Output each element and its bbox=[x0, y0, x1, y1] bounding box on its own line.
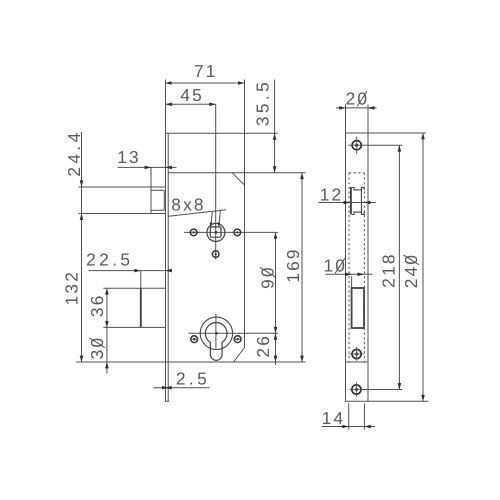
screw hole right of cylinder bbox=[234, 336, 241, 343]
latch bolt (front view) bbox=[150, 167, 152, 213]
dim 45 (backset) bbox=[166, 103, 216, 105]
dim 2.5 (faceplate thickness) bbox=[153, 387, 209, 389]
dim 24.4 / dim 132 shared dimension line bbox=[81, 132, 83, 362]
slash of zero in 240 (rotated) bbox=[403, 255, 419, 265]
screw hole right of follower bbox=[234, 229, 241, 236]
wire ext line bottom hole to dim 218 bbox=[361, 389, 402, 391]
follower square hole 8x8 bbox=[210, 227, 221, 237]
follower hub circle bbox=[207, 223, 225, 241]
svg-text:14: 14 bbox=[322, 408, 346, 428]
dim 14 (case offset) bbox=[348, 403, 350, 429]
dim 218 (screw hole spacing) bbox=[398, 145, 400, 389]
wire case bottom line across plate bbox=[346, 361, 367, 363]
wire case-top-edge + ext for 35.5/169 bbox=[168, 172, 305, 174]
top screw hole (side view) bbox=[352, 141, 361, 150]
wire case-bottom-edge + ext for 132/30/169 bbox=[76, 361, 306, 363]
dim 240 (plate height) bbox=[422, 133, 424, 401]
bottom screw hole (side view) bbox=[352, 385, 361, 394]
svg-text:10: 10 bbox=[323, 256, 347, 276]
wire follower horizontal centerline bbox=[184, 231, 278, 233]
svg-text:132: 132 bbox=[62, 270, 82, 305]
dim 13 (latch protrusion) bbox=[118, 166, 177, 168]
svg-text:22.5: 22.5 bbox=[86, 250, 133, 270]
screw hole left of cylinder bbox=[191, 336, 198, 343]
cylinder outer circle bbox=[200, 317, 232, 349]
svg-text:26: 26 bbox=[253, 334, 273, 358]
svg-text:8x8: 8x8 bbox=[171, 195, 205, 215]
wire cylinder vertical centerline bbox=[215, 314, 217, 349]
svg-text:13: 13 bbox=[117, 147, 141, 167]
svg-text:24.4: 24.4 bbox=[64, 129, 84, 176]
dim 10 (deadbolt slot width) bbox=[325, 273, 372, 275]
wire vertical centerline (backset 45) bbox=[215, 104, 217, 259]
slash of zero in 20 bbox=[357, 91, 367, 106]
svg-text:36: 36 bbox=[87, 293, 107, 317]
dim 35.5 (plate top to case top) bbox=[274, 80, 276, 173]
hidden case edges behind plate (dashed) bbox=[348, 173, 350, 362]
slash of zero in 30 (rotated) bbox=[89, 338, 105, 348]
dim 20 (plate width) bbox=[336, 107, 377, 109]
svg-text:45: 45 bbox=[180, 85, 204, 105]
middle screw hole (side view) bbox=[352, 349, 361, 358]
slash of zero in 10 bbox=[335, 258, 345, 273]
wire cylinder horizontal centerline + ext for 90/26 bbox=[189, 332, 279, 334]
svg-text:2.5: 2.5 bbox=[176, 368, 210, 388]
dim 36 / dim 30 shared dimension line bbox=[106, 288, 108, 373]
screw hole below follower bbox=[212, 251, 219, 258]
wire faceplate-top-edge + ext for 35.5 bbox=[166, 132, 278, 134]
wire ext line slot left edge bbox=[351, 277, 353, 289]
wire ext line top hole to dim 218 bbox=[361, 144, 402, 146]
latch bolt (side view) bbox=[350, 187, 352, 215]
wire case-right-edge + dim extension (x=244.5) bbox=[244, 80, 246, 348]
svg-text:20: 20 bbox=[346, 89, 370, 109]
wire case bottom-right chamfer bbox=[234, 348, 245, 363]
dim 71 (case width) bbox=[165, 82, 244, 84]
svg-text:169: 169 bbox=[283, 247, 303, 282]
faceplate side view outline bbox=[345, 105, 347, 402]
svg-text:35.5: 35.5 bbox=[253, 79, 273, 126]
wire faceplate-right-edge / case left edge (x=168.2) bbox=[167, 133, 169, 401]
dim 90 (follower to cylinder) and dim 26 (cylinder to case bottom) bbox=[275, 232, 277, 365]
svg-text:240: 240 bbox=[401, 253, 421, 288]
deadbolt (front view) bbox=[140, 271, 142, 289]
svg-text:218: 218 bbox=[378, 252, 398, 287]
deadbolt slot (side view) bbox=[352, 288, 364, 328]
dim 169 (case height) bbox=[301, 173, 303, 362]
dim 12 (latch width) leader line bbox=[319, 202, 376, 204]
wire faceplate-bottom-edge bbox=[165, 400, 170, 402]
svg-text:12: 12 bbox=[320, 184, 344, 204]
screw hole left of follower bbox=[190, 229, 197, 236]
wire case top-right chamfer bbox=[232, 173, 245, 185]
dim 22.5 (deadbolt throw) bbox=[89, 270, 172, 272]
wire faceplate-left-edge + dim extension (x=165.5) bbox=[165, 80, 167, 402]
slash of zero in 90 (rotated) bbox=[260, 267, 276, 277]
euro cylinder keyhole profile bbox=[205, 323, 227, 361]
svg-text:71: 71 bbox=[194, 61, 218, 81]
